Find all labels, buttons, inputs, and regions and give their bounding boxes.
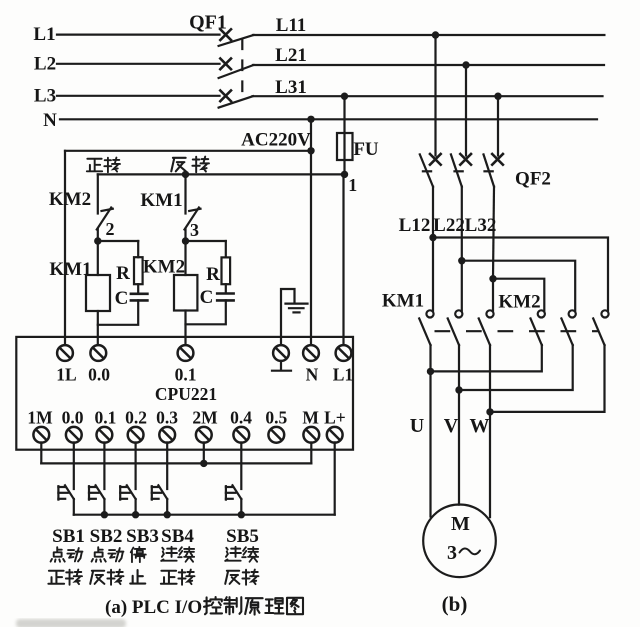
- earth mark under terminal: [272, 362, 291, 371]
- contactor KM1 pole 1: [426, 310, 433, 317]
- breaker QF2 pole 1 cross: [430, 154, 441, 165]
- svg-text:SB2: SB2: [90, 526, 123, 547]
- wire W to motor: [489, 412, 491, 517]
- coil KM2 body: [174, 275, 197, 311]
- svg-text:U: U: [410, 415, 424, 437]
- svg-text:FU: FU: [353, 139, 379, 160]
- wire L32 jog to KM2 pole 1: [493, 279, 544, 311]
- terminal 0.0 bottom: [66, 427, 82, 443]
- wire RC branch 2 down: [225, 241, 227, 257]
- wire coil KM2 to terminal 0.1: [184, 311, 186, 346]
- wire node1 drop to L1 terminal: [342, 174, 344, 345]
- caption 控制原理图: [204, 597, 303, 615]
- motor M circle: [423, 505, 496, 578]
- wire node 3 to coil KM2: [184, 241, 186, 275]
- wire FU to node 1: [343, 160, 345, 174]
- coil KM1 body: [86, 275, 110, 311]
- wire contact to node 3: [184, 229, 186, 241]
- node 1 junction: [341, 171, 348, 178]
- svg-text:R: R: [206, 264, 220, 285]
- contactor KM2 pole 1: [538, 310, 545, 317]
- label SB2 点动 反转: [90, 547, 123, 585]
- svg-text:KM2: KM2: [498, 292, 540, 313]
- junction L22: [458, 257, 465, 264]
- breaker QF2 pole 2 cross: [460, 154, 471, 165]
- svg-text:KM1: KM1: [49, 259, 91, 280]
- breaker QF1 pole 3 blade: [219, 96, 253, 107]
- wire SB1 down: [73, 499, 75, 515]
- capacitor C reverse plates: [217, 294, 233, 301]
- breaker QF2 pole 1 blade: [420, 154, 433, 186]
- junction L12: [429, 234, 436, 241]
- wire 1M drop: [40, 442, 42, 463]
- svg-text:0.3: 0.3: [156, 408, 178, 428]
- wire coil KM1 to terminal 0.0: [97, 311, 99, 345]
- button SB1: [58, 485, 73, 499]
- contact KM2 NC interlock blade: [97, 208, 111, 230]
- label SB5 连续 反转: [225, 547, 258, 585]
- wire input 0.2 to button SB3: [135, 442, 137, 489]
- junction W: [486, 408, 493, 415]
- wire input 0.4 to button SB5: [240, 442, 242, 489]
- wire RC branch down: [137, 241, 139, 257]
- junction U: [427, 368, 434, 375]
- terminal 0.3: [159, 427, 175, 443]
- scanner smudge bottom left: [16, 619, 126, 627]
- wire phase line from node 1: [98, 173, 345, 175]
- wire KM1 pole3 down: [489, 345, 491, 412]
- wire KM1 pole1 down: [429, 345, 431, 371]
- junction 2M on bus: [200, 460, 207, 467]
- wire SB4 down: [166, 499, 168, 515]
- svg-text:M: M: [302, 408, 319, 428]
- wire SB5 down: [240, 499, 242, 515]
- svg-text:0.1: 0.1: [94, 408, 116, 428]
- contactor KM2 pole 2: [569, 310, 576, 317]
- svg-text:0.0: 0.0: [88, 365, 110, 385]
- wire input 0.3 to button SB4: [166, 442, 168, 489]
- contact KM2 NC interlock bar: [102, 209, 113, 211]
- wire L31: [253, 95, 603, 97]
- wire phase corner down (forward branch): [97, 174, 99, 213]
- button SB5: [226, 485, 241, 499]
- wire input 0.1 to button SB2: [103, 442, 105, 489]
- fuse FU body: [337, 133, 353, 160]
- wire SB3 down: [135, 499, 137, 515]
- breaker QF1 pole 2 contact cross: [220, 59, 231, 70]
- wire KM1 pole 2 feed: [461, 261, 463, 311]
- wire M drop: [310, 442, 312, 463]
- resistor R reverse: [222, 257, 231, 284]
- terminal 0.2: [128, 427, 144, 443]
- svg-text:L12: L12: [399, 215, 431, 236]
- svg-text:KM2: KM2: [49, 189, 91, 210]
- svg-text:KM1: KM1: [140, 190, 182, 211]
- junction SB3 bus: [132, 511, 139, 518]
- fuse FU inner wire: [343, 133, 345, 160]
- button SB3: [120, 485, 135, 499]
- svg-text:R: R: [116, 263, 130, 284]
- svg-text:L22: L22: [433, 215, 465, 236]
- svg-text:2M: 2M: [192, 408, 218, 428]
- wire N neutral line: [60, 118, 597, 120]
- svg-text:0.5: 0.5: [265, 408, 287, 428]
- PLC box CPU221: [16, 337, 353, 450]
- junction L31 FU tap: [341, 93, 348, 100]
- svg-text:AC220V: AC220V: [241, 129, 311, 150]
- wire KM1 pole 3 feed: [492, 279, 494, 311]
- terminal 0.1 bottom: [97, 427, 113, 443]
- fuse FU wire from L31: [343, 96, 345, 133]
- svg-text:C: C: [200, 287, 214, 308]
- wire C down and left to coil wire reverse: [186, 300, 226, 324]
- wire common bus 1M-2M-M: [41, 462, 311, 464]
- wire node 2 to coil KM1: [97, 241, 99, 275]
- wire L31 drop to QF2: [497, 96, 499, 155]
- svg-text:SB4: SB4: [161, 526, 194, 547]
- terminal N: [303, 345, 319, 361]
- wire L1 phase line: [57, 33, 220, 35]
- svg-text:(a) PLC I/O: (a) PLC I/O: [105, 597, 202, 618]
- wire QF2 pole2 to L22 node: [461, 187, 463, 261]
- junction SB2 bus: [101, 511, 108, 518]
- svg-text:L32: L32: [465, 215, 497, 236]
- wire U to motor: [429, 371, 431, 516]
- wire L11: [253, 34, 604, 36]
- junction L11 tap: [432, 31, 439, 38]
- junction V: [455, 386, 462, 393]
- wire L22 jog to KM2 pole 2: [462, 261, 575, 311]
- resistor R forward: [134, 257, 143, 284]
- ground bars: [286, 304, 308, 313]
- contact KM1 NC interlock bar: [189, 209, 200, 211]
- svg-text:L31: L31: [275, 77, 307, 98]
- svg-text:1L: 1L: [56, 365, 76, 385]
- breaker QF1 pole 2 blade: [219, 65, 254, 78]
- terminal L+: [327, 427, 343, 443]
- junction N tap: [307, 116, 314, 123]
- wire L21: [253, 64, 604, 66]
- breaker QF1 pole 1 blade: [219, 35, 254, 46]
- junction SB4 bus: [164, 511, 171, 518]
- terminal 2M: [196, 427, 212, 443]
- wire contact to node 2: [97, 229, 99, 241]
- wire R to C: [137, 284, 139, 293]
- junction L31 tap: [494, 93, 501, 100]
- svg-text:L1: L1: [333, 365, 353, 385]
- button SB2: [89, 485, 104, 499]
- svg-text:L21: L21: [275, 45, 307, 66]
- svg-text:C: C: [115, 288, 129, 309]
- junction L21 tap: [462, 61, 469, 68]
- wire QF2 pole1 to L12 node: [432, 187, 434, 238]
- svg-text:SB5: SB5: [226, 526, 259, 547]
- svg-text:2: 2: [106, 219, 115, 239]
- wire L21 drop to QF2: [465, 65, 467, 156]
- svg-text:3: 3: [190, 220, 199, 240]
- terminal 1L: [57, 345, 73, 361]
- svg-text:SB3: SB3: [126, 526, 159, 547]
- breaker QF2 pole 2 blade: [451, 154, 462, 186]
- junction node 2: [94, 237, 101, 244]
- breaker QF1 mechanical link dashes: [241, 40, 243, 103]
- contact KM1 NC interlock blade: [185, 208, 199, 230]
- svg-text:SB1: SB1: [52, 526, 85, 547]
- svg-text:N: N: [43, 110, 57, 131]
- button SB4: [152, 485, 167, 499]
- svg-text:1M: 1M: [27, 408, 53, 428]
- svg-text:KM2: KM2: [143, 257, 185, 278]
- node 正转 label (forward): [87, 158, 120, 173]
- junction SB5 bus: [238, 511, 245, 518]
- svg-text:0.4: 0.4: [230, 408, 252, 428]
- contactor KM1 pole 3: [486, 310, 493, 317]
- wire L11 drop to QF2: [434, 35, 436, 156]
- svg-text:L11: L11: [276, 15, 307, 36]
- wire N to control rail: [310, 119, 312, 344]
- svg-text:KM1: KM1: [382, 291, 424, 312]
- contactor link dashes: [436, 330, 597, 332]
- wire button bus to L+: [74, 514, 335, 516]
- wire rail to 1L terminal: [64, 151, 66, 345]
- motor tilde: [460, 548, 481, 554]
- wire KM2 pole2 down and jog to V: [459, 345, 573, 390]
- svg-text:0.2: 0.2: [125, 408, 147, 428]
- wire QF2 pole3 to L32 node: [493, 187, 494, 279]
- breaker QF2 pole 3 cross: [492, 154, 503, 165]
- breaker QF1 pole 3 contact cross: [220, 91, 231, 102]
- terminal 0.5: [268, 427, 284, 443]
- svg-text:L3: L3: [34, 86, 56, 107]
- wire phase drop (reverse branch): [184, 174, 186, 213]
- label SB1 点动 正转: [48, 547, 82, 585]
- terminal 0.0 top: [90, 345, 106, 361]
- svg-text:3: 3: [447, 542, 457, 564]
- wire L12 jog to KM2 pole 3: [433, 238, 608, 311]
- capacitor C forward plates: [131, 294, 148, 301]
- wire KM1 pole 1 feed: [432, 238, 434, 311]
- wire KM2 pole1 down and jog to U: [431, 345, 542, 371]
- svg-text:QF2: QF2: [515, 169, 551, 190]
- terminal 1M: [33, 427, 49, 443]
- terminal M: [303, 427, 319, 443]
- svg-text:M: M: [451, 513, 470, 535]
- wire L2 phase line: [57, 63, 220, 65]
- label SB4 连续 正转: [161, 547, 195, 585]
- terminal L1: [336, 345, 352, 361]
- wire KM1 pole2 down: [458, 345, 460, 390]
- terminal 0.4: [233, 427, 249, 443]
- svg-text:1: 1: [348, 175, 357, 195]
- wire SB2 down: [103, 499, 105, 515]
- wire C down and left to coil wire: [98, 300, 138, 324]
- label SB3 停 止: [130, 547, 146, 584]
- svg-text:V: V: [444, 415, 459, 437]
- svg-text:0.1: 0.1: [175, 365, 197, 385]
- wire V to motor: [458, 390, 460, 505]
- svg-text:L+: L+: [324, 408, 346, 428]
- ground earth branch: [281, 289, 295, 345]
- junction node 3: [182, 237, 189, 244]
- breaker QF2 link dashes: [423, 170, 493, 172]
- wire node 3 to RC branch: [186, 240, 226, 242]
- junction rail-N: [307, 147, 314, 154]
- junction L32: [489, 275, 496, 282]
- svg-text:L2: L2: [34, 54, 56, 75]
- svg-text:W: W: [470, 415, 490, 437]
- svg-text:0.0: 0.0: [62, 408, 84, 428]
- svg-text:(b): (b): [442, 592, 468, 616]
- wire R to C reverse: [225, 284, 227, 293]
- wire control rail N: [65, 150, 311, 152]
- terminal earth: [273, 345, 289, 361]
- breaker QF1 pole 1 contact cross: [220, 29, 231, 40]
- contactor KM1 pole 2: [455, 310, 462, 317]
- wire KM2 pole3 down and jog to W: [490, 345, 605, 412]
- terminal 0.1 top: [178, 345, 194, 361]
- wire 2M drop: [203, 442, 205, 463]
- junction phase to KM1-branch: [182, 171, 189, 178]
- contactor KM2 pole 3: [601, 310, 608, 317]
- wire L+ drop: [334, 442, 336, 514]
- node 反转 label (reverse): [171, 157, 209, 173]
- svg-text:L1: L1: [33, 24, 55, 45]
- wire L3 phase line: [57, 95, 220, 97]
- wire input 0.0 to button SB1: [73, 442, 75, 489]
- svg-text:CPU221: CPU221: [155, 384, 217, 404]
- breaker QF2 pole 3 blade: [484, 154, 495, 186]
- wire node 2 to RC branch: [98, 240, 138, 242]
- svg-text:N: N: [306, 365, 319, 385]
